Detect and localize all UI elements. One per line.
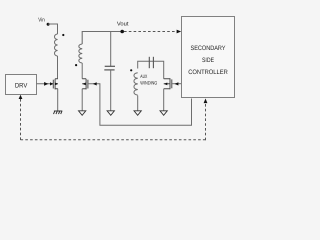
- arrow feedback into DRV bottom: [19, 95, 23, 99]
- transistor Q3 body arrow: [164, 83, 167, 86]
- transistor Q1 body arrow: [55, 83, 58, 86]
- svg-text:CONTROLLER: CONTROLLER: [188, 69, 228, 76]
- node Vin terminal dot: [47, 23, 50, 26]
- arrow Vout sense into controller: [177, 30, 182, 34]
- arrow feedback into controller bottom: [204, 99, 208, 104]
- svg-text:SECONDARY: SECONDARY: [191, 45, 227, 52]
- wire DRV output to Q1 gate: [37, 83, 54, 85]
- transformer secondary winding: [79, 44, 82, 63]
- transistor Q2 body arrow: [82, 83, 85, 86]
- controller block U1: [182, 17, 235, 98]
- aux polarity dot: [130, 69, 132, 71]
- capacitor C2 aux coupling: [149, 57, 153, 68]
- wire secondary top to Vout rail: [82, 32, 122, 45]
- wire primary bottom to Q1 drain: [57, 56, 59, 79]
- wire dashed feedback DRV down: [20, 99, 22, 140]
- ground earth Q3: [160, 111, 167, 116]
- svg-text:Vin: Vin: [38, 16, 44, 23]
- wire dashed feedback up to controller: [205, 103, 207, 140]
- ground earth output: [107, 111, 114, 116]
- wire Q3 source to ground: [163, 89, 165, 111]
- svg-text:WINDING: WINDING: [140, 81, 157, 87]
- ground chassis primary: [54, 111, 63, 114]
- svg-text:AUX: AUX: [140, 74, 147, 80]
- secondary polarity dot: [75, 64, 77, 66]
- wire output capacitor to ground: [110, 70, 112, 111]
- wire Vout rail to output capacitor: [110, 32, 112, 67]
- wire Q2 source to ground: [81, 89, 83, 111]
- wire Q3 gate from controller: [172, 83, 182, 85]
- wire aux top link: [138, 61, 164, 78]
- arrow at Q2 gate: [93, 82, 97, 85]
- svg-text:DRV: DRV: [15, 83, 28, 90]
- svg-text:SIDE: SIDE: [202, 57, 214, 64]
- driver block DRV: [6, 75, 37, 95]
- wire dashed feedback bottom run: [21, 139, 206, 141]
- arrow DRV output direction: [44, 82, 48, 86]
- transistor Q1 primary switch MOSFET: [53, 79, 58, 90]
- ground earth Q2: [79, 111, 86, 116]
- wire Q1 source to ground: [57, 89, 59, 111]
- capacitor C1 output: [104, 66, 115, 70]
- transformer primary winding: [55, 34, 58, 56]
- ground earth aux winding: [134, 111, 141, 116]
- wire aux winding to ground: [137, 96, 139, 111]
- svg-text:Vout: Vout: [117, 21, 129, 27]
- wire secondary bottom to Q2 drain: [81, 63, 83, 79]
- wire Q2 gate from controller: [88, 84, 191, 126]
- inductor aux winding: [134, 73, 138, 95]
- primary polarity dot: [62, 34, 64, 36]
- transistor Q3 aux MOSFET: [164, 78, 172, 89]
- wire Vin to primary top: [48, 24, 57, 34]
- arrow at Q1 gate: [50, 82, 53, 85]
- wire dashed Vout sense to controller: [124, 31, 177, 33]
- node Vout junction dot: [120, 30, 124, 34]
- transistor Q2 sync rectifier MOSFET: [82, 79, 88, 90]
- arrow at Q3 gate: [175, 82, 179, 85]
